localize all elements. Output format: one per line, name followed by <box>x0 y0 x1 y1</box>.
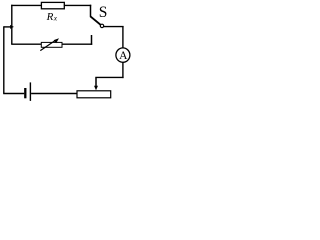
ammeter A (circle) <box>116 48 130 62</box>
svg-text:x: x <box>53 14 58 23</box>
resistor R_x (box) <box>41 2 64 8</box>
wire rheostat branch up stub <box>91 35 93 45</box>
rheostat R' (box) <box>41 42 62 47</box>
wire battery to bottom resistor <box>31 93 77 95</box>
switch pivot wire vertical <box>90 5 92 17</box>
wire left feed with current arrow <box>4 26 11 28</box>
battery negative plate (short thick) <box>24 88 26 98</box>
wire far-left vertical <box>3 26 5 93</box>
svg-text:R: R <box>46 11 54 23</box>
wire ammeter top vertical <box>122 26 124 48</box>
current arrowhead at node <box>10 25 14 29</box>
svg-text:A: A <box>119 50 128 62</box>
wire switch to ammeter <box>104 26 124 28</box>
rheostat arrow <box>40 40 55 50</box>
battery positive plate (long thin) <box>29 82 31 101</box>
wire rheostat branch right <box>62 43 93 45</box>
wire top-right horizontal <box>64 4 91 6</box>
wire top-left horizontal <box>11 4 42 6</box>
wire right vertical lower <box>122 62 124 78</box>
svg-text:S: S <box>99 4 108 21</box>
slider arrowhead <box>94 86 98 91</box>
slider wire down <box>95 78 97 87</box>
wire rheostat branch left <box>11 43 42 45</box>
switch blade <box>90 16 100 25</box>
wire bottom-right horizontal <box>95 76 123 78</box>
wire bottom-left <box>3 93 24 95</box>
resistor R0 (bottom box) <box>77 91 111 98</box>
switch fixed contact (circle) <box>100 24 103 27</box>
wire inner-left vertical <box>11 5 13 45</box>
